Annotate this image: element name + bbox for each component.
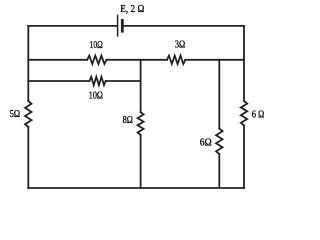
svg-text:5Ω: 5Ω: [10, 109, 20, 120]
svg-text:E, 2 Ω: E, 2 Ω: [120, 4, 144, 15]
svg-text:10Ω: 10Ω: [89, 90, 103, 101]
svg-text:8Ω: 8Ω: [123, 115, 133, 126]
svg-text:6Ω: 6Ω: [200, 138, 212, 149]
svg-text:10Ω: 10Ω: [90, 40, 103, 51]
svg-text:3Ω: 3Ω: [175, 40, 185, 51]
svg-text:6 Ω: 6 Ω: [252, 109, 264, 120]
